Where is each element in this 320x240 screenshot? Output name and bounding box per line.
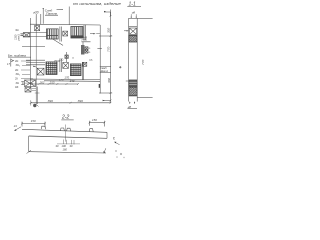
fan arrows	[34, 66, 37, 67]
vertical pair between plates	[60, 27, 61, 42]
underline of note	[8, 56, 31, 58]
thick end-plate segment on right edge	[99, 84, 101, 88]
bolt G	[83, 62, 87, 66]
tick left of block L	[126, 80, 129, 82]
side view top extension line	[137, 18, 152, 20]
svg-text:170: 170	[64, 75, 69, 79]
right dim tick lines	[99, 36, 112, 93]
side view bolt J leader	[124, 30, 128, 32]
bolt H arrows	[21, 82, 24, 85]
stud 1	[41, 126, 45, 129]
underline of 1-1	[127, 6, 141, 8]
svg-text:3Ω: 3Ω	[15, 28, 18, 32]
left note Bet podbivka	[8, 53, 26, 57]
section 2-2 bottom line	[29, 152, 106, 153]
label PM8	[82, 35, 88, 42]
svg-text:2Ω: 2Ω	[15, 59, 18, 63]
label Samb/Shvell near right	[100, 66, 109, 73]
small arrow to rotated text	[115, 142, 120, 145]
svg-text:160: 160	[63, 147, 68, 151]
faint specks bottom right area	[115, 150, 125, 158]
side view inner line	[129, 26, 138, 28]
svg-text:⌀8: ⌀8	[132, 11, 136, 15]
bottom beam lines of plan	[30, 79, 100, 81]
svg-text:1250: 1250	[15, 34, 18, 40]
stud 3	[67, 128, 71, 131]
svg-text:100: 100	[62, 144, 67, 148]
corner slash at bottom left	[27, 150, 32, 153]
side view line under bolt	[129, 34, 138, 36]
left label stack	[15, 59, 20, 89]
bolt C	[63, 31, 68, 36]
leader from title to plan	[68, 7, 70, 25]
svg-text:150: 150	[31, 119, 36, 123]
stud 4	[89, 129, 93, 132]
overall dimension line 890+890	[31, 102, 111, 104]
svg-text:Бет. подбивка: Бет. подбивка	[8, 53, 26, 57]
svg-text:75: 75	[112, 136, 116, 140]
section 2-2 left vertical	[28, 136, 30, 152]
svg-text:⌀30: ⌀30	[33, 10, 39, 14]
small dims under studs	[56, 144, 73, 148]
bolt E	[37, 68, 44, 75]
dia 30 label	[33, 10, 39, 14]
hatched plate 2 (top row)	[71, 27, 83, 39]
chain dimension line	[32, 83, 79, 85]
tiny text rows between rows	[54, 58, 74, 63]
right dim ticks	[110, 15, 112, 101]
bottom right down arrow	[104, 148, 106, 153]
svg-text:3Ω: 3Ω	[16, 81, 19, 85]
arrow marker at right edge of plan	[90, 33, 94, 35]
vertical pair right of plate 2	[84, 25, 85, 41]
side view dark block L	[129, 80, 137, 87]
side view bottom line	[129, 95, 138, 97]
two tiny bolts right of dark block	[85, 47, 88, 50]
svg-text:890: 890	[78, 99, 83, 103]
leaders of label stack	[21, 61, 33, 83]
right 150 dimension	[92, 118, 97, 122]
underline and leader of label	[43, 9, 63, 24]
svg-text:240: 240	[69, 79, 75, 83]
underline + leader of PM8	[81, 42, 90, 46]
section 2-2 top chord	[22, 129, 107, 132]
plan view right edge	[99, 25, 101, 94]
underline of that label	[100, 66, 111, 72]
left slope arrow	[15, 127, 21, 131]
svg-text:890: 890	[48, 99, 53, 103]
svg-text:770: 770	[141, 60, 145, 65]
marks right of bolt I	[32, 89, 36, 91]
side view bolt J	[129, 28, 136, 34]
stud dim extension lines	[64, 140, 74, 145]
plus mark	[119, 66, 121, 68]
section flag top	[104, 10, 111, 17]
plan view inner horizontal	[22, 46, 45, 48]
svg-text:313: 313	[50, 80, 55, 84]
svg-text:3Ω₂: 3Ω₂	[16, 63, 20, 67]
side view top edge	[129, 17, 138, 19]
svg-text:302: 302	[107, 78, 111, 83]
svg-text:3Ω₂: 3Ω₂	[16, 72, 20, 76]
svg-text:Панели: Панели	[46, 12, 57, 16]
flag symbol	[11, 59, 14, 67]
extension at left end of overall dim	[30, 100, 32, 105]
leader lines from dia30	[36, 14, 41, 24]
dark column block	[81, 45, 85, 55]
hatched plate 1 (top row)	[47, 29, 59, 39]
bolt F	[63, 62, 69, 68]
plan view top edge	[30, 23, 100, 26]
tiny marks right	[89, 48, 91, 54]
overall dim ticks	[30, 102, 112, 104]
title note (cursive)	[73, 2, 121, 6]
side view bottom extension line	[137, 97, 152, 99]
side view hatch block M	[129, 87, 137, 96]
bottom arrow of section line	[103, 100, 111, 102]
svg-text:302: 302	[40, 80, 45, 84]
rotated dim texts	[107, 28, 111, 83]
hatched plate 3 (middle row)	[46, 62, 57, 75]
section 2-2 right end vertical	[106, 132, 108, 138]
stud 2	[60, 128, 64, 131]
svg-text:770: 770	[107, 47, 111, 52]
side view hatch block K	[129, 36, 137, 43]
svg-text:ΩΣ: ΩΣ	[15, 85, 19, 89]
small 170 dim	[64, 75, 69, 79]
label Sanb/Paneli	[45, 8, 58, 15]
vertical pair middle row	[60, 59, 61, 73]
hatched plate 4 (middle row)	[70, 64, 81, 76]
side view right rotated dim	[141, 60, 145, 65]
bolt H (bottom-left wide)	[25, 80, 36, 87]
bolt A on top edge	[35, 26, 40, 31]
section 2-2 lower line	[29, 136, 107, 138]
leader fan lines (middle row left)	[26, 60, 45, 65]
bolt I	[25, 88, 31, 92]
svg-text:150: 150	[92, 118, 97, 122]
side view left edge	[128, 18, 130, 101]
side view right edge	[136, 18, 138, 101]
svg-text:по шпилькам, изделие: по шпилькам, изделие	[73, 2, 121, 6]
leader from plate 1	[53, 39, 63, 45]
vertical pair right of plate 4	[82, 62, 83, 80]
svg-text:узел1: узел1	[18, 34, 21, 41]
svg-text:2Ω: 2Ω	[15, 68, 18, 72]
top beam flange lines	[23, 33, 47, 37]
bolt B plate	[23, 33, 29, 37]
rotated note left	[15, 34, 21, 41]
side view: dia8 label + arrows	[132, 11, 136, 15]
svg-text:170: 170	[59, 78, 64, 82]
plan view column axis	[35, 17, 37, 105]
svg-text:24: 24	[13, 124, 17, 128]
plan view left edge	[29, 18, 31, 89]
centerline of section 2-2	[65, 125, 67, 142]
bottom up arrows	[130, 102, 135, 104]
tick across right edge	[97, 47, 102, 49]
chain dim texts	[40, 78, 75, 84]
underline of 2-2	[61, 119, 73, 121]
section label 2-2	[61, 115, 69, 121]
right vertical dimension line	[110, 12, 112, 103]
left 150 dimension	[31, 119, 36, 123]
section label 1-1	[129, 1, 136, 7]
side view bottom dia8 label	[128, 105, 132, 109]
chain dim ticks	[31, 83, 79, 85]
small bolt between rows	[66, 52, 68, 62]
svg-text:2Ω: 2Ω	[60, 60, 63, 62]
overall dim texts	[48, 99, 83, 103]
bolt B leader arrows	[20, 34, 23, 36]
tiny label left of bolt B	[15, 28, 18, 32]
rotated text right of section	[112, 136, 116, 140]
leader down with dark dot	[36, 87, 38, 105]
svg-text:302: 302	[107, 28, 111, 33]
